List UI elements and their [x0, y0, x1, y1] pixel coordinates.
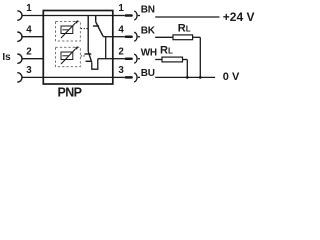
- svg-text:4: 4: [26, 24, 32, 35]
- svg-text:WH: WH: [141, 48, 157, 59]
- svg-text:BU: BU: [141, 68, 155, 79]
- svg-text:RL: RL: [178, 23, 191, 35]
- svg-text:2: 2: [118, 46, 124, 57]
- svg-text:Is: Is: [2, 52, 11, 63]
- svg-text:+24 V: +24 V: [223, 10, 255, 24]
- svg-text:1: 1: [118, 3, 124, 14]
- svg-text:4: 4: [118, 24, 124, 35]
- svg-text:2: 2: [26, 46, 32, 57]
- svg-text:RL: RL: [160, 45, 173, 57]
- svg-text:BN: BN: [141, 5, 155, 16]
- svg-text:PNP: PNP: [58, 86, 82, 100]
- svg-text:BK: BK: [141, 26, 156, 37]
- svg-text:3: 3: [26, 65, 32, 76]
- svg-text:1: 1: [26, 3, 32, 14]
- svg-text:0 V: 0 V: [223, 71, 240, 83]
- svg-text:3: 3: [118, 65, 124, 76]
